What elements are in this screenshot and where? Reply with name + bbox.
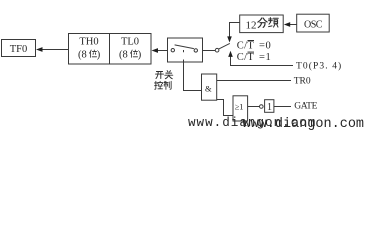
inverter bubble	[260, 105, 264, 109]
svg-text:1: 1	[267, 102, 272, 113]
label (8位) TH0	[78, 50, 101, 61]
OR gate box	[233, 96, 248, 121]
switch contact left	[171, 49, 174, 52]
arrowhead into div12	[284, 22, 290, 27]
switch lever	[175, 45, 194, 49]
arrowhead into TL0	[152, 48, 159, 53]
svg-text:OSC: OSC	[304, 19, 323, 30]
AND gate box	[202, 74, 217, 100]
svg-text:&: &	[205, 84, 212, 94]
svg-text:T0(P3. 4): T0(P3. 4)	[296, 61, 342, 72]
svg-text:www.diangon.com: www.diangon.com	[243, 117, 365, 132]
svg-text:≥1: ≥1	[235, 102, 244, 112]
svg-text:TH0: TH0	[79, 37, 98, 48]
arrowhead C/T=1 up	[228, 51, 233, 57]
svg-text:TF0: TF0	[10, 44, 28, 55]
C/T selector pole circle	[215, 48, 219, 52]
wire OR to inverter bubble	[248, 106, 260, 108]
svg-text:12: 12	[246, 19, 257, 31]
svg-text:(8: (8	[78, 50, 87, 61]
register TH0/TL0 box	[69, 34, 152, 65]
svg-text:C/T: C/T	[237, 52, 255, 63]
wire control line vertical	[184, 60, 202, 91]
svg-text:=1: =1	[259, 52, 271, 63]
wire inverter to GATE	[274, 106, 291, 108]
register TF0 box	[2, 40, 36, 57]
label C/T=0	[237, 41, 272, 52]
svg-text:TR0: TR0	[294, 77, 311, 87]
wire switch to TL0	[157, 50, 168, 52]
svg-text:GATE: GATE	[294, 102, 317, 112]
label 12分频	[246, 18, 279, 32]
switch contact right	[194, 49, 197, 52]
svg-text:): )	[97, 50, 101, 61]
control line dot	[183, 50, 185, 52]
svg-text:): )	[138, 50, 142, 61]
wire T0 pin line	[231, 57, 294, 66]
label 开关	[156, 71, 173, 79]
svg-text:=0: =0	[259, 41, 271, 52]
wire TR0 line	[217, 80, 291, 82]
wire switch box to pole	[203, 50, 216, 52]
svg-text:(8: (8	[119, 50, 128, 61]
inverter box	[265, 100, 274, 113]
wire AND to OR staircase	[217, 100, 233, 116]
wire TH0 to TF0	[41, 49, 69, 51]
divide-by-12 box	[240, 15, 284, 33]
label (8位) TL0	[119, 50, 142, 61]
OSC box	[297, 14, 330, 32]
label 控制	[154, 81, 171, 89]
divider TH0/TL0	[109, 34, 111, 65]
switch control box	[168, 38, 203, 62]
wire OSC to div12	[289, 24, 297, 26]
svg-text:TL0: TL0	[121, 37, 139, 48]
label C/T=1	[237, 52, 272, 63]
wire div12 to C/T=0 contact	[230, 23, 240, 38]
svg-text:C/T: C/T	[237, 41, 255, 52]
arrowhead into TF0	[36, 47, 43, 52]
arrowhead C/T=0 down	[227, 36, 232, 42]
C/T selector lever	[219, 43, 230, 49]
